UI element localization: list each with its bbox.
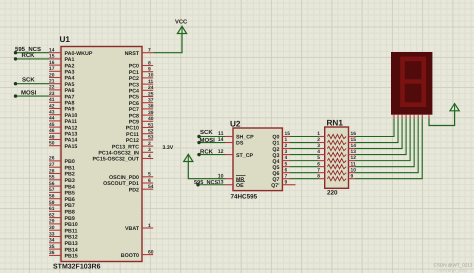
- resistor network RN1 body: [325, 127, 349, 188]
- svg-text:29: 29: [49, 219, 55, 225]
- wire U2 Q6 to RN1 pin 7: [290, 172, 319, 174]
- svg-text:58: 58: [49, 194, 55, 200]
- svg-text:PC12: PC12: [126, 138, 139, 144]
- wire U2 Q0 to RN1 pin 1: [290, 136, 319, 138]
- svg-text:PA2: PA2: [65, 63, 75, 69]
- svg-text:PA12: PA12: [65, 125, 78, 131]
- svg-text:MOSI: MOSI: [200, 137, 216, 144]
- svg-text:52: 52: [148, 129, 154, 135]
- svg-text:PA9: PA9: [65, 107, 75, 113]
- svg-text:STM32F103R6: STM32F103R6: [53, 264, 101, 271]
- svg-text:8: 8: [317, 173, 320, 179]
- svg-text:4: 4: [317, 149, 320, 155]
- svg-text:PB12: PB12: [65, 235, 78, 241]
- svg-text:9: 9: [351, 173, 354, 179]
- wire U2 Q3 to RN1 pin 4: [290, 154, 319, 156]
- wires Q0-Q7 from U2 to RN1 inputs: [290, 137, 319, 179]
- svg-text:4: 4: [285, 155, 288, 161]
- wire RN1 pin 13 to display segment pin 4: [355, 118, 406, 154]
- svg-text:20: 20: [49, 72, 55, 78]
- svg-text:54: 54: [148, 184, 154, 190]
- svg-text:43: 43: [49, 110, 55, 116]
- wire U2 Q4 to RN1 pin 5: [290, 160, 319, 162]
- svg-text:Q7': Q7': [271, 183, 279, 189]
- svg-text:23: 23: [49, 91, 55, 97]
- svg-text:42: 42: [49, 103, 55, 109]
- svg-text:34: 34: [49, 238, 55, 244]
- svg-text:PA10: PA10: [65, 113, 78, 119]
- svg-text:PC9: PC9: [129, 120, 139, 126]
- svg-text:PB4: PB4: [65, 184, 75, 190]
- svg-text:15: 15: [285, 131, 291, 137]
- svg-text:61: 61: [49, 206, 55, 212]
- svg-text:1: 1: [285, 137, 288, 143]
- svg-text:PB7: PB7: [65, 203, 75, 209]
- RN1 resistor zigzag elements: [327, 134, 346, 180]
- svg-text:2: 2: [148, 141, 151, 147]
- svg-text:27: 27: [49, 162, 55, 168]
- svg-text:74HC595: 74HC595: [231, 194, 258, 201]
- wire net RCK to U2 ST_CP with terminal dot and label: [199, 154, 225, 156]
- svg-text:PA1: PA1: [65, 57, 75, 63]
- U1 left pins PA0-PA15 with pin numbers: [49, 48, 93, 150]
- 7-segment display body: [391, 52, 432, 115]
- svg-text:PB14: PB14: [65, 247, 78, 253]
- svg-text:PC2: PC2: [129, 76, 139, 82]
- svg-text:2: 2: [317, 137, 320, 143]
- svg-text:PA14: PA14: [65, 138, 78, 144]
- wire RN1 pin 9 to display segment pin 8: [355, 118, 423, 178]
- svg-text:15: 15: [49, 54, 55, 60]
- svg-text:60: 60: [148, 249, 154, 255]
- svg-text:OE: OE: [236, 183, 244, 189]
- U2 right pins Q0-Q7 and Q7' with numbers: [271, 131, 295, 189]
- svg-text:PC5: PC5: [129, 95, 139, 101]
- svg-text:PA0-WKUP: PA0-WKUP: [65, 51, 93, 57]
- svg-text:PC4: PC4: [129, 89, 139, 95]
- svg-text:PB15: PB15: [65, 254, 78, 260]
- svg-text:PC1: PC1: [129, 70, 139, 76]
- svg-text:10: 10: [148, 73, 154, 79]
- wire 7-segment common anode to power arrow: [429, 111, 455, 126]
- svg-text:36: 36: [49, 250, 55, 256]
- svg-text:6: 6: [317, 161, 320, 167]
- wire U1 NRST to VCC power symbol: [153, 34, 182, 53]
- U1 right pins NRST PC0-PC15 PD0-PD2 VBAT BOOT0 with pin numbers: [92, 48, 153, 259]
- 7-segment display segments figure 8: [400, 57, 426, 107]
- svg-text:45: 45: [49, 122, 55, 128]
- svg-text:37: 37: [148, 98, 154, 104]
- svg-text:3.3V: 3.3V: [163, 145, 174, 151]
- wire RN1 pin 15 to display segment pin 2: [355, 118, 398, 142]
- svg-text:PB5: PB5: [65, 191, 75, 197]
- svg-text:44: 44: [49, 116, 55, 122]
- svg-text:PB0: PB0: [65, 159, 75, 165]
- svg-text:38: 38: [148, 104, 154, 110]
- svg-text:7: 7: [285, 173, 288, 179]
- svg-text:9: 9: [285, 179, 288, 185]
- svg-text:OSCIN_PD0: OSCIN_PD0: [109, 175, 139, 181]
- wire RN1 pin 16 to display segment pin 1: [355, 118, 394, 136]
- svg-text:21: 21: [49, 79, 55, 85]
- svg-text:6: 6: [285, 167, 288, 173]
- svg-text:59: 59: [49, 200, 55, 206]
- wire net MOSI to U2 DS with terminal dot and label: [199, 142, 225, 144]
- svg-text:MOSI: MOSI: [21, 89, 37, 96]
- svg-text:53: 53: [148, 135, 154, 141]
- svg-text:PB6: PB6: [65, 197, 75, 203]
- 7-segment common anode pin stub: [428, 115, 430, 119]
- svg-text:11: 11: [148, 79, 153, 85]
- svg-text:PB2: PB2: [65, 172, 75, 178]
- svg-text:BOOT0: BOOT0: [121, 253, 139, 259]
- svg-text:PC14-OSC32_IN: PC14-OSC32_IN: [98, 151, 139, 157]
- svg-text:PC8: PC8: [129, 113, 139, 119]
- wire net 595_NCS to U1 PA0 with terminal dot and label: [16, 52, 50, 54]
- power symbol VCC arrow: [177, 26, 186, 33]
- svg-text:SCK: SCK: [200, 129, 213, 136]
- svg-text:PC0: PC0: [129, 64, 139, 70]
- svg-text:CSDN @WT_0213: CSDN @WT_0213: [437, 268, 467, 272]
- svg-text:55: 55: [49, 175, 55, 181]
- svg-text:14: 14: [49, 48, 55, 54]
- svg-text:22: 22: [49, 85, 55, 91]
- svg-text:PB3: PB3: [65, 178, 75, 184]
- svg-text:RN1: RN1: [327, 118, 344, 127]
- svg-text:1: 1: [148, 223, 151, 229]
- svg-text:3: 3: [148, 147, 151, 153]
- wire net MOSI to U1 PA7 with terminal dot and label: [16, 95, 50, 97]
- U1 left pins PB0-PB15 with pin numbers: [49, 156, 78, 260]
- wire U2 Q2 to RN1 pin 3: [290, 148, 319, 150]
- svg-text:RCK: RCK: [22, 52, 36, 59]
- svg-text:49: 49: [49, 134, 55, 140]
- svg-text:50: 50: [49, 141, 55, 147]
- svg-text:2: 2: [285, 143, 288, 149]
- svg-text:24: 24: [148, 85, 154, 91]
- svg-text:ST_CP: ST_CP: [236, 153, 254, 159]
- svg-text:VBAT: VBAT: [125, 226, 140, 232]
- svg-text:26: 26: [49, 156, 55, 162]
- svg-text:8: 8: [148, 60, 151, 66]
- svg-text:NRST: NRST: [125, 51, 140, 57]
- wire RN1 pin 10 to display segment pin 7: [355, 118, 419, 172]
- svg-text:PA3: PA3: [65, 70, 75, 76]
- svg-text:SCK: SCK: [22, 77, 35, 84]
- svg-text:595_NCS: 595_NCS: [194, 180, 219, 186]
- svg-text:30: 30: [49, 225, 55, 231]
- svg-text:PA6: PA6: [65, 88, 75, 94]
- wire U2 Q1 to RN1 pin 2: [290, 142, 319, 144]
- svg-text:7: 7: [317, 167, 320, 173]
- svg-text:41: 41: [49, 97, 55, 103]
- svg-text:220: 220: [327, 190, 338, 197]
- svg-text:RCK: RCK: [200, 149, 214, 156]
- svg-text:PC7: PC7: [129, 107, 139, 113]
- svg-text:PC13_RTC: PC13_RTC: [112, 144, 139, 150]
- svg-text:PC15-OSC32_OUT: PC15-OSC32_OUT: [92, 157, 139, 163]
- svg-text:PA5: PA5: [65, 82, 75, 88]
- wire U2 Q7 to RN1 pin 8: [290, 178, 319, 180]
- svg-text:595_NCS: 595_NCS: [15, 46, 41, 53]
- IC U1 microcontroller STM32F103R6 body: [61, 47, 142, 262]
- wire 3.3V power symbol to U2 MR pin: [188, 162, 225, 179]
- U2 left pins SH_CP DS ST_CP MR OE with numbers: [218, 131, 254, 189]
- svg-text:17: 17: [49, 66, 55, 72]
- svg-text:3: 3: [317, 143, 320, 149]
- svg-text:46: 46: [49, 128, 55, 134]
- svg-text:9: 9: [148, 67, 151, 73]
- svg-text:PA15: PA15: [65, 144, 78, 150]
- svg-text:39: 39: [148, 110, 154, 116]
- svg-text:PA13: PA13: [65, 132, 78, 138]
- svg-text:40: 40: [148, 116, 154, 122]
- svg-text:56: 56: [49, 181, 55, 187]
- RN1 left pins 1-8: [317, 131, 324, 179]
- wire net SCK to U1 PA5 with terminal dot and label: [16, 83, 50, 85]
- svg-text:VCC: VCC: [175, 19, 188, 26]
- wire net SCK to U2 SH_CP with terminal dot and label: [199, 136, 225, 138]
- svg-text:PC10: PC10: [126, 126, 139, 132]
- svg-text:PD2: PD2: [129, 187, 139, 193]
- svg-text:PC11: PC11: [126, 132, 139, 138]
- svg-text:25: 25: [148, 91, 154, 97]
- svg-text:7: 7: [148, 48, 151, 54]
- svg-text:U1: U1: [60, 35, 71, 44]
- svg-text:PC3: PC3: [129, 82, 139, 88]
- svg-text:3: 3: [285, 149, 288, 155]
- svg-text:35: 35: [49, 244, 55, 250]
- svg-text:5: 5: [317, 155, 320, 161]
- wire RN1 pin 11 to display segment pin 6: [355, 118, 415, 166]
- wire RN1 pin 12 to display segment pin 5: [355, 118, 411, 160]
- svg-text:62: 62: [49, 212, 55, 218]
- svg-text:PB11: PB11: [65, 228, 78, 234]
- svg-text:1: 1: [317, 131, 320, 137]
- svg-text:28: 28: [49, 168, 55, 174]
- svg-text:OSCOUT_PD1: OSCOUT_PD1: [103, 181, 139, 187]
- wires RN1 outputs to 7-segment display pins: [355, 118, 423, 178]
- svg-text:6: 6: [148, 178, 151, 184]
- RN1 right pins 16-9: [349, 131, 357, 179]
- svg-text:33: 33: [49, 231, 55, 237]
- svg-text:U2: U2: [230, 120, 241, 129]
- svg-text:PA8: PA8: [65, 101, 75, 107]
- svg-text:51: 51: [148, 122, 154, 128]
- power symbol 3.3V arrow: [184, 154, 193, 161]
- svg-text:PB8: PB8: [65, 210, 75, 216]
- shift register U2 74HC595 body: [233, 128, 282, 191]
- svg-text:4: 4: [148, 153, 151, 159]
- wire net RCK to U1 PA1 with terminal dot and label: [16, 58, 50, 60]
- power symbol arrow at display common: [450, 104, 459, 111]
- svg-text:PA4: PA4: [65, 76, 75, 82]
- svg-text:PC6: PC6: [129, 101, 139, 107]
- wire RN1 pin 14 to display segment pin 3: [355, 118, 402, 148]
- svg-text:PA7: PA7: [65, 94, 75, 100]
- wire net 595_NCS to U2 OE with terminal dot and label: [198, 184, 225, 186]
- svg-text:CSDN @WT_0213: CSDN @WT_0213: [434, 263, 473, 268]
- svg-text:PB10: PB10: [65, 222, 78, 228]
- wire U2 Q5 to RN1 pin 6: [290, 166, 319, 168]
- svg-text:PB1: PB1: [65, 165, 75, 171]
- svg-text:16: 16: [49, 60, 55, 66]
- svg-text:DS: DS: [236, 141, 244, 147]
- svg-text:PB9: PB9: [65, 216, 75, 222]
- svg-text:57: 57: [49, 187, 55, 193]
- svg-text:PA11: PA11: [65, 119, 78, 125]
- svg-text:PB13: PB13: [65, 241, 78, 247]
- 7-segment display segment pin stubs: [394, 115, 422, 119]
- svg-text:5: 5: [285, 161, 288, 167]
- svg-text:5: 5: [148, 172, 151, 178]
